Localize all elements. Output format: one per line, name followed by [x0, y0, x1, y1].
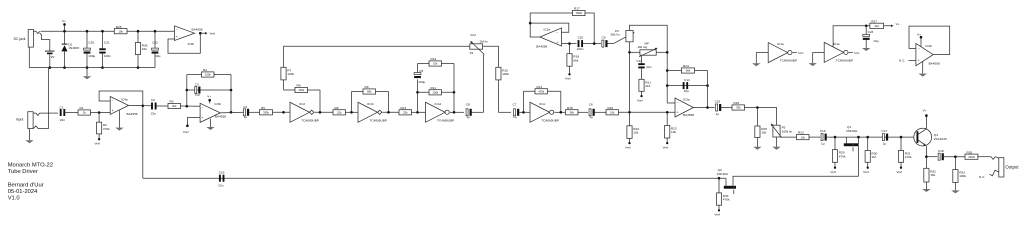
wire rail to C7 — [498, 111, 511, 113]
wire lower power rail — [29, 67, 155, 69]
resistor R36 10k — [135, 30, 147, 69]
svg-text:2k2: 2k2 — [172, 104, 177, 108]
svg-text:R1: R1 — [80, 106, 84, 110]
svg-text:TC4069UBP: TC4069UBP — [302, 118, 319, 122]
capacitor C21 100n — [99, 30, 111, 69]
V+ supply arrow — [64, 24, 66, 31]
resistor R17 150R — [573, 10, 586, 15]
svg-text:Output: Output — [1005, 164, 1019, 169]
capacitor C17 1u — [881, 129, 888, 145]
wire IC1e input grounded — [813, 51, 825, 53]
resistor R11 100k feedback — [416, 86, 455, 95]
ground below R33 — [951, 190, 959, 193]
svg-text:IC3b: IC3b — [215, 102, 222, 106]
svg-text:C20: C20 — [88, 41, 94, 45]
wire IC3b feedback left vertical — [186, 75, 188, 107]
wire R19 down to rail — [497, 80, 499, 112]
wire C10 to C9 — [583, 43, 601, 45]
capacitor C7 1u — [513, 103, 520, 120]
wire drive pot left to R7 — [284, 45, 470, 47]
svg-text:R8: R8 — [335, 106, 339, 110]
op-amp IC3a BA4558 — [675, 97, 694, 117]
svg-text:100n: 100n — [104, 54, 111, 58]
svg-text:150R: 150R — [576, 11, 582, 15]
capacitor C14 33p feedback — [666, 78, 709, 93]
input jack J1 — [16, 112, 49, 129]
svg-text:1µ: 1µ — [821, 142, 825, 146]
svg-text:22n: 22n — [646, 65, 651, 69]
svg-text:IC2a: IC2a — [544, 28, 551, 32]
svg-text:IC1b: IC1b — [367, 102, 374, 106]
Vref terminal below R18 — [568, 73, 570, 75]
svg-text:2SK30A: 2SK30A — [717, 172, 729, 176]
svg-text:Vref: Vref — [625, 145, 631, 149]
capacitor C18 1u — [938, 149, 944, 160]
resistor R25 33k — [732, 105, 745, 110]
svg-text:R11: R11 — [431, 86, 437, 90]
wire C8 to drive pot wiper — [472, 111, 484, 113]
svg-text:Vref: Vref — [470, 33, 476, 37]
capacitor C5 100u — [414, 69, 425, 84]
wire battery branch from jack — [40, 33, 50, 51]
svg-text:BA4558: BA4558 — [192, 27, 203, 31]
resistor R24 56k feedback — [666, 64, 708, 73]
svg-text:10k: 10k — [118, 29, 123, 33]
svg-text:C7: C7 — [513, 103, 517, 107]
capacitor C8 1u — [466, 103, 472, 120]
svg-text:1M lin: 1M lin — [480, 39, 489, 43]
wire C9 to P2 wiper — [607, 43, 613, 45]
svg-text:100k: 100k — [287, 72, 294, 76]
svg-text:10k: 10k — [142, 47, 147, 51]
wire R3 to IC3b — [181, 105, 201, 107]
node R30 junction — [866, 136, 869, 139]
node IC3a output junction — [706, 106, 709, 109]
svg-text:R16: R16 — [608, 106, 614, 110]
resistor R30 1M — [865, 137, 877, 167]
svg-text:C3: C3 — [195, 82, 199, 86]
resistor R12 10k feedback — [418, 57, 455, 66]
svg-text:10k: 10k — [801, 135, 806, 139]
svg-text:R26: R26 — [116, 25, 122, 29]
svg-text:−: − — [918, 47, 920, 51]
svg-text:TC4069UBP: TC4069UBP — [780, 59, 797, 63]
ground below R32 — [922, 189, 930, 192]
wire P5 wiper to R27 — [781, 136, 799, 138]
resistor R35 220R — [965, 154, 978, 159]
svg-text:10µ: 10µ — [195, 93, 200, 97]
svg-text:IC4a: IC4a — [121, 97, 128, 101]
svg-text:V+: V+ — [207, 95, 211, 99]
wire IC3a output — [694, 107, 715, 109]
wire DC jack sleeve down — [28, 47, 30, 68]
svg-text:BA4558: BA4558 — [683, 113, 694, 117]
resistor R16 10k — [606, 110, 619, 115]
capacitor C10 100n — [577, 35, 584, 51]
wire R8 to IC1b — [346, 111, 359, 113]
capacitor C19 22n — [218, 170, 224, 187]
svg-text:−: − — [556, 31, 558, 35]
wire IC4b feedback loop — [168, 33, 200, 53]
svg-text:R15: R15 — [567, 106, 573, 110]
svg-text:100k: 100k — [502, 72, 509, 76]
ground IC2b — [919, 61, 927, 76]
V+ arrow IC3b — [209, 100, 211, 103]
inverter IC1d TC4069UBP — [426, 102, 455, 122]
potentiometer P3 10k log MF — [637, 42, 657, 57]
svg-text:10k: 10k — [633, 130, 638, 134]
output jack J3 — [979, 157, 1019, 179]
wire P3 left — [630, 51, 640, 53]
node C16 junction — [834, 136, 837, 139]
op-amp IC3b BA4558 — [200, 102, 226, 122]
resistor R29 470k — [832, 137, 846, 167]
capacitor C4 1u — [243, 105, 249, 119]
Vref terminal below R2 — [98, 138, 100, 140]
capacitor C9 1u — [602, 35, 608, 47]
svg-text:+: + — [202, 116, 204, 120]
diode D1 1N400X — [61, 30, 79, 69]
resistor R31 470k — [898, 137, 912, 167]
wire C6 to R16 — [595, 111, 606, 113]
svg-text:10k log: 10k log — [637, 45, 647, 49]
wire IC3b feedback right vertical — [230, 75, 232, 113]
svg-text:BA4558: BA4558 — [536, 45, 547, 49]
wire C16 to Q1 node — [827, 136, 917, 138]
transistor Q3 2SC1815 — [914, 128, 947, 146]
svg-text:R9: R9 — [365, 85, 369, 89]
potentiometer P2 50k lin — [611, 29, 634, 42]
svg-text:10k: 10k — [433, 62, 438, 66]
node R17 tap junction — [593, 42, 596, 45]
svg-text:C9: C9 — [602, 35, 606, 39]
Vref terminal below R34 — [718, 209, 720, 211]
svg-text:33k: 33k — [736, 106, 741, 110]
svg-text:IC1f: IC1f — [299, 102, 305, 106]
inverter IC1b TC4069UBP — [358, 102, 387, 122]
svg-text:R24: R24 — [683, 64, 689, 68]
svg-text:IC1e: IC1e — [833, 42, 840, 46]
svg-text:IC1d: IC1d — [435, 102, 442, 106]
svg-text:TC4069UBP: TC4069UBP — [542, 118, 559, 122]
node IC1d input junction — [416, 111, 419, 114]
wire IC2b feedback box — [909, 26, 950, 54]
capacitor C22 10u — [152, 30, 161, 68]
svg-text:C21: C21 — [104, 41, 110, 45]
Vref terminal below R20 — [628, 142, 630, 144]
resistor R6 330k feedback — [284, 84, 321, 93]
V+ arrow IC2b — [917, 32, 922, 47]
wire IC1c output — [555, 111, 566, 113]
wire IC3a feedback right vertical — [707, 71, 709, 108]
svg-text:R3: R3 — [170, 100, 174, 104]
node IC1f input junction — [282, 111, 285, 114]
wire R17 to C10 node — [585, 13, 594, 44]
title block text — [8, 163, 53, 202]
resistor R1 2k — [78, 110, 91, 115]
wire IC4a feedback loop — [99, 91, 143, 106]
svg-text:TC4069UBP: TC4069UBP — [836, 58, 853, 62]
node output divider junction — [954, 155, 957, 158]
node IC1d output junction — [453, 111, 456, 114]
node emitter junction — [925, 155, 928, 158]
svg-text:220k: 220k — [205, 73, 211, 77]
svg-text:+: + — [676, 111, 678, 115]
svg-text:Vref: Vref — [663, 145, 669, 149]
wire C2 to R3 — [157, 105, 169, 107]
svg-text:C6: C6 — [589, 103, 593, 107]
svg-text:Vref: Vref — [637, 98, 643, 102]
wire R1 to node A — [91, 112, 111, 114]
svg-text:C15: C15 — [715, 100, 721, 104]
capacitor C23 10u — [863, 26, 879, 48]
resistor R21 2k2 — [639, 68, 651, 95]
svg-text:22n: 22n — [60, 118, 65, 122]
svg-text:IC2b: IC2b — [926, 44, 933, 48]
wire C1 to R1 — [65, 112, 79, 114]
ground below P5 — [772, 137, 780, 150]
node IC1c input junction — [522, 111, 525, 114]
resistor R9 56k feedback — [352, 85, 389, 112]
svg-text:100k lin: 100k lin — [782, 129, 793, 133]
svg-text:2k2: 2k2 — [645, 84, 650, 88]
svg-text:V+: V+ — [917, 32, 921, 36]
svg-text:C4: C4 — [243, 105, 247, 109]
svg-text:C14: C14 — [684, 78, 690, 82]
svg-text:−: − — [202, 106, 204, 110]
transistor Q2 2SK30A — [717, 168, 736, 194]
svg-text:2SK30A: 2SK30A — [846, 129, 858, 133]
resistor R19 100k — [496, 67, 501, 80]
svg-text:Vref: Vref — [210, 32, 216, 36]
node R22 junction — [666, 111, 669, 114]
svg-text:C16: C16 — [820, 129, 826, 133]
node IC1b input junction — [350, 111, 353, 114]
svg-text:10µ: 10µ — [684, 89, 689, 93]
svg-text:10k: 10k — [761, 131, 766, 135]
potentiometer P5 100k lin — [771, 124, 793, 138]
ground below R28 — [753, 147, 761, 150]
svg-text:C8: C8 — [466, 103, 470, 107]
wire IC1a output N.C — [793, 51, 805, 55]
svg-text:R12: R12 — [431, 57, 437, 61]
wire R15 to C6 — [578, 111, 588, 113]
wire IC1e output N.C — [849, 51, 861, 55]
svg-text:BA4558: BA4558 — [929, 62, 940, 66]
node IC1b output junction — [387, 111, 390, 114]
svg-text:R27: R27 — [871, 19, 877, 23]
svg-text:470k: 470k — [905, 155, 912, 159]
svg-text:N.C: N.C — [798, 51, 804, 55]
svg-text:330k: 330k — [263, 111, 269, 115]
Vref terminal below R21 — [640, 95, 642, 97]
svg-text:Vref: Vref — [95, 141, 101, 145]
svg-text:1M: 1M — [872, 155, 877, 159]
svg-text:Input: Input — [16, 117, 24, 121]
node Q2 gate junction — [718, 177, 721, 180]
svg-text:1µ: 1µ — [513, 115, 517, 119]
svg-text:Vref: Vref — [896, 170, 902, 174]
node IC1c output junction — [560, 111, 563, 114]
svg-text:R13: R13 — [401, 106, 407, 110]
wire IC1a input grounded — [756, 52, 768, 54]
svg-text:10µ: 10µ — [873, 39, 878, 43]
svg-text:R25: R25 — [734, 101, 740, 105]
svg-text:Tube Driver: Tube Driver — [8, 169, 38, 175]
wire Q1 source to bottom rail — [858, 137, 860, 176]
svg-text:R5: R5 — [261, 106, 265, 110]
capacitor C6 1u — [589, 103, 595, 120]
resistor R7 100k — [281, 67, 295, 80]
inverter IC1a TC4069UBP spare — [768, 42, 797, 62]
svg-text:Monarch MTO-22: Monarch MTO-22 — [8, 163, 53, 169]
svg-text:V+: V+ — [62, 19, 66, 23]
op-amp IC4a BA4558 — [110, 97, 138, 116]
svg-text:1µ: 1µ — [589, 115, 593, 119]
capacitor C3 10u feedback — [187, 82, 231, 96]
svg-text:56k: 56k — [686, 69, 691, 73]
svg-text:10k: 10k — [610, 111, 615, 115]
svg-text:V+: V+ — [923, 109, 927, 113]
Vref terminal below R30 — [867, 167, 869, 169]
svg-text:05-01-2024: 05-01-2024 — [8, 189, 38, 195]
svg-text:470k: 470k — [103, 127, 110, 131]
svg-text:Vref: Vref — [183, 130, 189, 134]
svg-text:+: + — [176, 35, 178, 39]
svg-text:C18: C18 — [938, 149, 944, 153]
node IC1f output junction — [319, 111, 322, 114]
op-amp IC2b BA4558 spare — [916, 43, 940, 65]
svg-text:BA4558: BA4558 — [215, 114, 226, 118]
svg-text:R4: R4 — [203, 68, 207, 72]
resistor R26 10k — [114, 29, 127, 34]
svg-text:P4: P4 — [470, 51, 474, 55]
wire R27 to C16 — [809, 136, 820, 138]
node IC4a output junction — [142, 105, 145, 108]
wire IC1d feedback left vertical — [417, 64, 419, 73]
svg-text:TC4069UBP: TC4069UBP — [437, 118, 454, 122]
svg-text:1µ: 1µ — [244, 115, 248, 119]
battery BT1 9V — [45, 51, 56, 59]
svg-text:BA4558: BA4558 — [127, 112, 138, 116]
node Vref source — [199, 32, 215, 36]
svg-text:C5: C5 — [419, 69, 423, 73]
svg-text:100µ: 100µ — [88, 54, 95, 58]
capacitor C16 1u — [820, 129, 827, 145]
resistor R8 22k — [333, 110, 346, 115]
wire bottom feedback rail right — [733, 176, 859, 186]
node Q3 base junction — [900, 136, 903, 139]
wire input to C1 — [49, 112, 59, 114]
wire IC2a output loop — [530, 13, 572, 37]
svg-text:C17: C17 — [881, 129, 887, 133]
svg-text:IC1c: IC1c — [539, 102, 546, 106]
wire P2 bottom to tone tap — [629, 42, 631, 53]
inverter IC1e TC4069UBP spare — [824, 42, 853, 62]
wire IC1f output — [315, 111, 333, 113]
wire P3 right — [656, 51, 667, 53]
svg-text:R6: R6 — [297, 84, 301, 88]
svg-text:2SC1815: 2SC1815 — [934, 137, 947, 141]
potentiometer P4 1M lin — [470, 33, 488, 55]
node tone tap junction — [628, 111, 631, 114]
svg-text:V1.0: V1.0 — [8, 195, 20, 201]
resistor R27 2k2 — [870, 23, 884, 28]
svg-text:C10: C10 — [578, 35, 584, 39]
Vref terminal below R22 — [666, 142, 668, 144]
resistor R23 10k — [797, 135, 810, 140]
Vref terminal IC3b plus — [183, 125, 189, 134]
svg-text:100µ: 100µ — [418, 80, 425, 84]
svg-text:1N400X: 1N400X — [68, 46, 79, 50]
svg-text:15k: 15k — [930, 173, 935, 177]
wire drive pot right to R19 — [483, 46, 499, 67]
svg-text:100k: 100k — [432, 91, 438, 95]
V+ arrow Q3 collector — [923, 109, 928, 129]
svg-text:−: − — [677, 101, 679, 105]
wire C7 to IC1c — [519, 111, 530, 113]
resistor R4 220k feedback — [187, 68, 231, 77]
node IC3b output junction — [230, 111, 233, 114]
wire C15 to R25 — [721, 107, 732, 109]
wire top power rail — [41, 30, 175, 32]
svg-text:R17: R17 — [574, 7, 580, 11]
resistor R32 15k — [924, 157, 936, 189]
resistor R15 56k — [566, 110, 579, 115]
svg-text:−: − — [112, 99, 114, 103]
svg-text:22k: 22k — [337, 111, 342, 115]
ground below C23 — [862, 48, 870, 51]
svg-text:IC1a: IC1a — [777, 42, 784, 46]
wire IC3b plus input to Vref — [187, 118, 200, 125]
svg-text:220R: 220R — [968, 155, 974, 159]
resistor R22 10k — [665, 112, 677, 142]
wire battery minus to input sleeve — [48, 68, 50, 129]
svg-text:Vref: Vref — [565, 77, 571, 81]
svg-text:Vref: Vref — [863, 170, 869, 174]
svg-text:1µ: 1µ — [466, 115, 470, 119]
svg-text:330k: 330k — [298, 88, 304, 92]
wire Q3 emitter — [925, 146, 927, 157]
svg-text:C11: C11 — [636, 59, 642, 63]
op-amp IC2a BA4558 left-pointing — [536, 28, 561, 49]
node A junction — [98, 111, 101, 114]
capacitor C1 22n — [60, 105, 66, 122]
svg-text:22n: 22n — [218, 183, 223, 187]
V+ terminal hex inverter supply — [891, 22, 900, 27]
svg-text:470k: 470k — [723, 198, 730, 202]
wire IC4a output — [129, 104, 152, 106]
wire R5 to IC1f — [273, 111, 291, 113]
svg-text:TC4069UBP: TC4069UBP — [370, 118, 387, 122]
ground IC4a — [115, 110, 123, 130]
wire tone tap vertical — [629, 52, 631, 112]
capacitor C2 22n — [151, 98, 157, 115]
wire C18 to R34 node — [944, 156, 965, 158]
svg-text:C1: C1 — [60, 105, 64, 109]
DC jack J2 — [14, 30, 40, 48]
wire P2 top loop to IC3a minus — [630, 25, 668, 103]
wire bottom feedback rail left — [143, 177, 726, 179]
resistor R33 100k — [953, 157, 967, 191]
svg-text:IC3a: IC3a — [683, 97, 690, 101]
resistor R18 56k — [567, 44, 579, 74]
ground IC1a input — [752, 53, 760, 67]
wire IC2a plus input rail — [562, 43, 577, 45]
svg-text:50k lin: 50k lin — [611, 33, 620, 37]
svg-text:Bernard d'Uur: Bernard d'Uur — [8, 182, 44, 188]
capacitor C20 100u — [84, 30, 96, 69]
